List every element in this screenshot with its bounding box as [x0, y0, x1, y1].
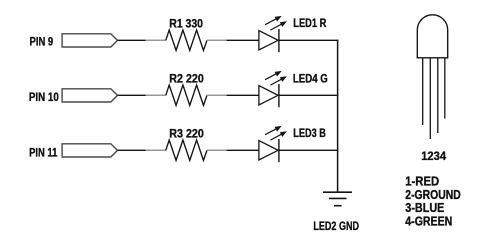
wire LED3 to bus: [279, 149, 338, 151]
LED D3 emission arrow a: [265, 126, 282, 135]
wire gray stub out of R2: [207, 94, 227, 96]
svg-text:PIN 9: PIN 9: [30, 35, 54, 49]
LED D4 triangle: [259, 86, 278, 106]
LED D1 cathode bar: [278, 29, 280, 52]
LED D4 emission arrow a: [265, 71, 282, 80]
svg-text:LED4 G: LED4 G: [293, 72, 328, 86]
connector tag PIN 11: [62, 144, 117, 157]
svg-text:1234: 1234: [421, 149, 446, 163]
LED D1 triangle: [259, 31, 278, 51]
LED package pin 1: [422, 58, 424, 125]
wire R1 to LED1: [227, 39, 259, 41]
resistor R1 zigzag: [166, 30, 207, 50]
wire R2 to LED4: [227, 94, 259, 96]
wire LED1 to bus: [279, 39, 338, 41]
LED D1 emission arrow a: [265, 16, 282, 25]
svg-text:R1 330: R1 330: [169, 17, 203, 31]
wire vertical ground bus: [337, 40, 339, 193]
wire gray stub into R3: [146, 149, 166, 151]
LED D3 triangle: [259, 141, 278, 161]
svg-text:PIN 10: PIN 10: [29, 90, 59, 104]
LED D3 emission arrow b: [270, 131, 287, 140]
wire PIN10 tag to R2: [118, 94, 147, 96]
LED package pin 3: [437, 58, 439, 133]
svg-text:PIN 11: PIN 11: [29, 145, 58, 159]
svg-text:R2 220: R2 220: [169, 72, 204, 86]
LED D4 emission arrow b: [270, 76, 287, 85]
LED D4 cathode bar: [278, 84, 280, 107]
resistor R3 zigzag: [166, 140, 207, 160]
ground symbol bar 2: [329, 197, 347, 199]
svg-text:LED2 GND: LED2 GND: [313, 219, 359, 233]
ground symbol bar 3: [334, 205, 342, 207]
wire PIN11 tag to R3: [118, 149, 147, 151]
LED D1 emission arrow b: [270, 21, 287, 30]
connector tag PIN 9: [62, 34, 117, 47]
wire gray stub into R1: [146, 39, 166, 41]
LED D3 cathode bar: [278, 139, 280, 162]
wire R3 to LED3: [227, 149, 259, 151]
wire gray stub into R2: [146, 94, 166, 96]
wire gray stub out of R1: [207, 39, 227, 41]
wire LED4 to bus: [279, 94, 338, 96]
LED package pin 2: [429, 58, 431, 139]
wire PIN9 tag to R1: [118, 39, 147, 41]
wire gray stub out of R3: [207, 149, 227, 151]
ground symbol bar 1: [323, 191, 352, 193]
resistor R2 zigzag: [166, 85, 207, 105]
svg-text:4-GREEN: 4-GREEN: [405, 214, 452, 229]
svg-text:LED1 R: LED1 R: [293, 16, 326, 30]
svg-text:LED3 B: LED3 B: [293, 126, 326, 140]
LED package body: [417, 15, 447, 58]
svg-text:R3 220: R3 220: [169, 127, 204, 141]
LED package pin 4: [444, 58, 446, 119]
connector tag PIN 10: [62, 89, 117, 102]
